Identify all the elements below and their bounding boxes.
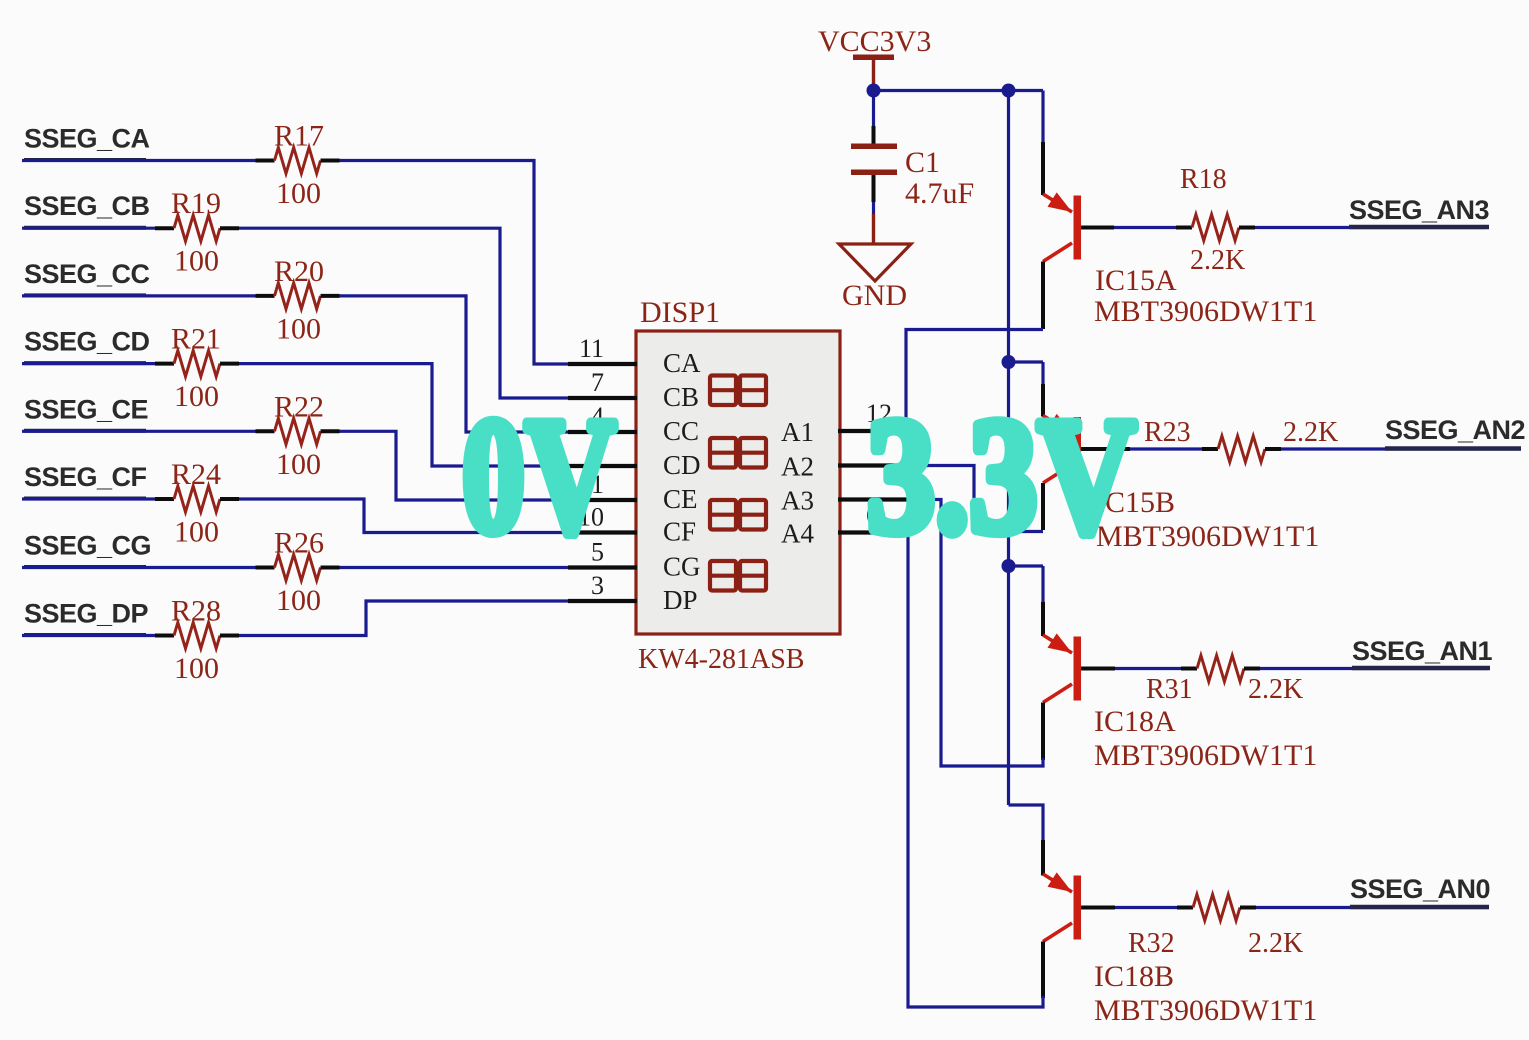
svg-text:R18: R18 xyxy=(1180,164,1227,195)
lead left of R28 xyxy=(155,634,174,638)
seven-segment glyph pair 2 xyxy=(710,438,736,468)
svg-text:0V: 0V xyxy=(462,384,616,567)
svg-text:CF: CF xyxy=(663,517,696,547)
svg-text:KW4-281ASB: KW4-281ASB xyxy=(638,644,804,675)
wire SSEG_CA to R17 xyxy=(22,159,256,162)
svg-text:3.3V: 3.3V xyxy=(867,384,1136,567)
underline of SSEG_CF xyxy=(24,497,146,501)
emitter lead IC15B xyxy=(1041,384,1045,417)
wire IC18A collector to A3 xyxy=(908,500,1043,767)
svg-text:R20: R20 xyxy=(274,255,324,288)
lead left of R32 xyxy=(1177,906,1193,910)
svg-text:SSEG_DP: SSEG_DP xyxy=(24,599,149,629)
svg-text:4.7uF: 4.7uF xyxy=(905,177,974,210)
resistor R23 2.2K xyxy=(1218,436,1265,462)
svg-text:SSEG_CF: SSEG_CF xyxy=(24,462,147,492)
lead right of R21 xyxy=(220,362,239,366)
svg-text:SSEG_CB: SSEG_CB xyxy=(24,191,150,221)
junction VCC rail top xyxy=(1002,84,1016,98)
GND stem xyxy=(872,214,875,244)
svg-text:2.2K: 2.2K xyxy=(1190,245,1245,276)
wire down to IC15B emitter xyxy=(1041,362,1044,384)
wire C1 to GND xyxy=(872,202,875,215)
wire SSEG_CG to R26 xyxy=(22,566,256,569)
lead right of R22 xyxy=(321,429,340,433)
pin stub DP pin 3 xyxy=(568,599,637,603)
svg-text:MBT3906DW1T1: MBT3906DW1T1 xyxy=(1094,739,1317,772)
svg-text:R23: R23 xyxy=(1144,417,1191,448)
svg-text:DP: DP xyxy=(663,585,698,615)
emitter lead IC15A xyxy=(1041,142,1045,195)
resistor R31 2.2K xyxy=(1197,656,1244,682)
svg-text:R26: R26 xyxy=(274,527,324,560)
base lead IC15A xyxy=(1081,226,1114,230)
wire R31 to SSEG_AN1 xyxy=(1260,667,1488,670)
wire CC staircase to DISP1 pin xyxy=(340,296,569,432)
base lead IC18A xyxy=(1081,667,1115,671)
wire R32 to SSEG_AN0 xyxy=(1256,906,1489,909)
svg-text:R21: R21 xyxy=(171,323,221,356)
resistor R20 100 xyxy=(275,283,321,309)
svg-text:GND: GND xyxy=(842,279,907,312)
svg-text:2.2K: 2.2K xyxy=(1248,928,1303,959)
svg-text:MBT3906DW1T1: MBT3906DW1T1 xyxy=(1094,295,1317,328)
svg-text:100: 100 xyxy=(276,584,321,617)
wire IC15B collector to A2 xyxy=(908,466,1043,532)
VCC3V3 power bar symbol xyxy=(853,55,894,61)
svg-text:CE: CE xyxy=(663,484,698,514)
lead right of R19 xyxy=(220,226,239,230)
collector lead IC18B xyxy=(1041,942,1045,999)
transistor IC18B MBT3906DW1T1 (PNP) xyxy=(1074,876,1082,940)
underline of SSEG_CE xyxy=(24,429,146,433)
lead right of R20 xyxy=(321,294,340,298)
wire VCC to IC15A emitter xyxy=(1041,91,1044,143)
transistor IC15A MBT3906DW1T1 (PNP) xyxy=(1074,196,1082,260)
resistor R21 100 xyxy=(174,351,220,377)
pin stub CF pin 10 xyxy=(568,530,637,534)
lead left of R31 xyxy=(1181,667,1197,671)
svg-text:SSEG_AN0: SSEG_AN0 xyxy=(1350,874,1490,904)
wire SSEG_CC to R20 xyxy=(22,294,256,297)
VCC stem xyxy=(872,60,875,88)
svg-text:100: 100 xyxy=(174,380,219,413)
wire VCC junction to IC15B emitter xyxy=(1009,360,1044,363)
wire R23 to SSEG_AN2 xyxy=(1281,447,1521,450)
pin stub CA pin 11 xyxy=(568,362,637,366)
wire CA staircase to DISP1 pin xyxy=(340,161,569,365)
svg-text:CA: CA xyxy=(663,348,701,378)
resistor R28 100 xyxy=(174,623,220,649)
lead bottom of C1 xyxy=(872,175,876,202)
resistor R22 100 xyxy=(275,418,321,444)
svg-text:R31: R31 xyxy=(1146,674,1193,705)
resistor R18 2.2K xyxy=(1192,215,1239,241)
underline of SSEG_AN1 xyxy=(1352,666,1490,671)
collector lead IC18A xyxy=(1041,703,1045,761)
svg-text:R17: R17 xyxy=(274,120,324,153)
svg-text:SSEG_CG: SSEG_CG xyxy=(24,531,151,561)
ground symbol xyxy=(839,244,911,281)
svg-text:SSEG_AN1: SSEG_AN1 xyxy=(1352,636,1493,666)
emitter lead IC18B xyxy=(1041,840,1045,876)
lead left of R19 xyxy=(155,226,174,230)
lead right of R23 xyxy=(1265,447,1281,451)
lead right of R18 xyxy=(1239,226,1255,230)
pin stub A2 xyxy=(838,463,908,467)
wire R18 to SSEG_AN3 xyxy=(1255,226,1486,229)
svg-text:SSEG_AN2: SSEG_AN2 xyxy=(1385,415,1525,445)
seven-segment glyph pair 3 xyxy=(710,500,736,530)
pin stub A4 xyxy=(838,530,908,534)
svg-text:100: 100 xyxy=(276,312,321,345)
junction at VCC node xyxy=(867,84,881,98)
wire SSEG_DP to R28 xyxy=(22,634,155,637)
svg-text:DISP1: DISP1 xyxy=(640,296,720,329)
pin stub CD pin 2 xyxy=(568,464,637,468)
pin stub A1 xyxy=(838,429,908,433)
svg-text:SSEG_CE: SSEG_CE xyxy=(24,394,148,424)
wire VCC horizontal rail xyxy=(874,89,1044,92)
svg-text:SSEG_AN3: SSEG_AN3 xyxy=(1349,195,1490,225)
svg-text:R28: R28 xyxy=(171,595,221,628)
transistor IC18A MBT3906DW1T1 (PNP) xyxy=(1074,637,1082,701)
base lead IC15B xyxy=(1081,447,1130,451)
svg-text:MBT3906DW1T1: MBT3906DW1T1 xyxy=(1094,994,1317,1027)
svg-text:SSEG_CC: SSEG_CC xyxy=(24,259,150,289)
wire IC18A base to R31 xyxy=(1115,667,1181,670)
underline of SSEG_CD xyxy=(24,361,146,365)
svg-text:SSEG_CD: SSEG_CD xyxy=(24,327,150,357)
junction VCC rail to IC18A emitter xyxy=(1002,559,1016,573)
svg-text:2.2K: 2.2K xyxy=(1248,674,1303,705)
svg-text:IC18A: IC18A xyxy=(1094,705,1176,738)
svg-text:R19: R19 xyxy=(171,187,221,220)
underline of SSEG_CB xyxy=(24,226,146,230)
pin stub A3 xyxy=(838,497,908,501)
display DISP1 body xyxy=(636,331,840,634)
wire SSEG_CD to R21 xyxy=(22,362,155,365)
svg-text:CC: CC xyxy=(663,416,699,446)
wire down to IC18A emitter xyxy=(1041,566,1044,602)
lead left of R26 xyxy=(256,566,275,570)
lead left of R22 xyxy=(256,429,275,433)
wire DP staircase up to DISP1 pin xyxy=(239,601,568,636)
svg-text:CD: CD xyxy=(663,450,701,480)
svg-text:A3: A3 xyxy=(781,486,814,516)
resistor R24 100 xyxy=(174,486,220,512)
lead left of R21 xyxy=(155,362,174,366)
junction VCC rail to IC15B emitter xyxy=(1002,355,1016,369)
svg-text:IC18B: IC18B xyxy=(1094,960,1174,993)
lead right of R28 xyxy=(220,634,239,638)
underline of SSEG_CA xyxy=(24,158,146,162)
lead left of R17 xyxy=(256,159,275,163)
svg-text:100: 100 xyxy=(174,516,219,549)
underline of SSEG_CC xyxy=(24,293,146,297)
wire IC15A collector to A1 xyxy=(906,330,1043,432)
lead right of R24 xyxy=(220,497,239,501)
wire IC18B collector to A4 xyxy=(908,533,1043,1008)
svg-text:CB: CB xyxy=(663,382,699,412)
wire VCC vertical rail xyxy=(1007,91,1010,806)
seven-segment glyph pair 4 xyxy=(710,561,736,591)
collector lead IC15B xyxy=(1041,483,1045,530)
svg-text:C1: C1 xyxy=(905,146,940,179)
svg-text:A2: A2 xyxy=(781,452,814,482)
lead right of R26 xyxy=(321,566,340,570)
svg-text:100: 100 xyxy=(276,177,321,210)
svg-text:100: 100 xyxy=(276,448,321,481)
wire SSEG_CE to R22 xyxy=(22,430,256,433)
resistor R19 100 xyxy=(174,215,220,241)
pin stub CB pin 7 xyxy=(568,396,637,400)
wire CF staircase to DISP1 pin xyxy=(239,499,568,533)
svg-text:R22: R22 xyxy=(274,390,324,423)
svg-text:CG: CG xyxy=(663,552,701,582)
svg-text:2.2K: 2.2K xyxy=(1283,417,1338,448)
svg-text:100: 100 xyxy=(174,652,219,685)
pin stub CG pin 5 xyxy=(568,565,637,569)
lead top of C1 xyxy=(872,126,876,144)
svg-text:R32: R32 xyxy=(1128,928,1175,959)
transistor IC15B MBT3906DW1T1 (PNP) xyxy=(1074,417,1082,481)
wire CD staircase to DISP1 pin xyxy=(239,364,568,466)
svg-text:A1: A1 xyxy=(781,417,814,447)
resistor R32 2.2K xyxy=(1193,895,1240,921)
wire IC18B base to R32 xyxy=(1115,906,1177,909)
collector lead IC15A xyxy=(1041,262,1045,330)
resistor R26 100 xyxy=(275,555,321,581)
wire IC15A base to R18 xyxy=(1114,226,1176,229)
wire CB staircase to DISP1 pin xyxy=(239,228,568,398)
svg-text:IC15A: IC15A xyxy=(1095,264,1177,297)
pin stub CC pin 4 xyxy=(568,430,637,434)
resistor R17 100 xyxy=(275,148,321,174)
capacitor C1 plates xyxy=(851,144,897,150)
wire VCC rail end to IC18B emitter xyxy=(1009,805,1044,840)
lead right of R17 xyxy=(321,159,340,163)
wire VCC node down to C1 xyxy=(872,90,875,126)
lead left of R23 xyxy=(1202,447,1218,451)
lead left of R24 xyxy=(155,497,174,501)
svg-text:100: 100 xyxy=(174,245,219,278)
seven-segment glyph pair 1 xyxy=(710,376,736,406)
underline of SSEG_AN0 xyxy=(1350,905,1489,910)
svg-text:A4: A4 xyxy=(781,519,814,549)
lead left of R20 xyxy=(256,294,275,298)
underline of SSEG_DP xyxy=(24,633,146,637)
wire CE staircase to DISP1 pin xyxy=(340,431,569,500)
pin stub CE pin 1 xyxy=(568,498,637,502)
svg-text:SSEG_CA: SSEG_CA xyxy=(24,124,150,154)
emitter lead IC18A xyxy=(1041,602,1045,636)
underline of SSEG_AN2 xyxy=(1385,446,1521,451)
svg-text:VCC3V3: VCC3V3 xyxy=(818,25,931,58)
svg-text:3: 3 xyxy=(591,571,604,600)
wire IC15B base to R23 xyxy=(1130,447,1202,450)
underline of SSEG_AN3 xyxy=(1349,225,1489,230)
wire CG to DISP1 xyxy=(340,566,569,569)
underline of SSEG_CG xyxy=(24,565,146,569)
wire VCC junction to IC18A emitter xyxy=(1009,564,1044,567)
wire SSEG_CB to R19 xyxy=(22,227,155,230)
lead left of R18 xyxy=(1176,226,1192,230)
lead right of R32 xyxy=(1240,906,1256,910)
wire SSEG_CF to R24 xyxy=(22,497,155,500)
svg-text:11: 11 xyxy=(579,334,604,363)
svg-text:R24: R24 xyxy=(171,458,221,491)
base lead IC18B xyxy=(1081,906,1115,910)
lead right of R31 xyxy=(1244,667,1260,671)
